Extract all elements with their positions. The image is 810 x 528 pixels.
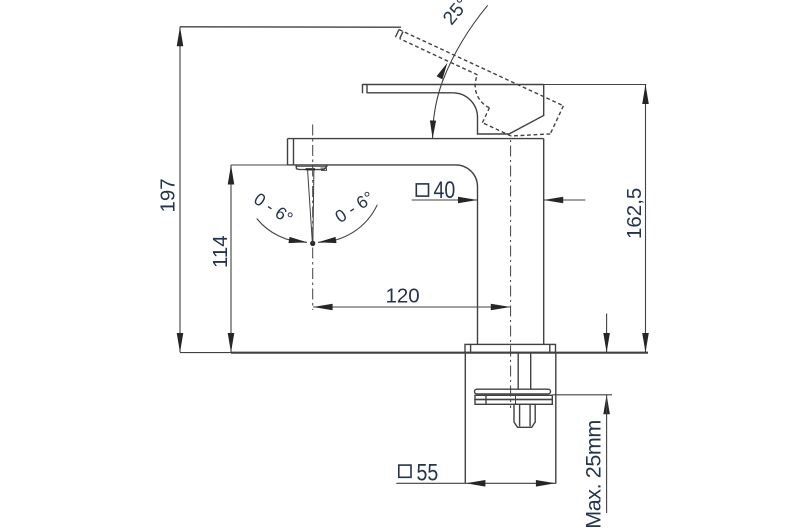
angle dimension 0-6 degree right arc (318, 205, 377, 243)
svg-text:Max. 25mm: Max. 25mm (581, 420, 605, 528)
dimension Max. 25mm (553, 314, 613, 514)
node stream apex dot (310, 241, 315, 246)
dimension 162,5 vertical line (544, 85, 649, 353)
svg-text:25°: 25° (439, 0, 474, 29)
centerline of spout outlet (dash-dot) (312, 125, 314, 311)
svg-text:162,5: 162,5 (623, 188, 646, 239)
angle dimension 0-6 degree left arc (257, 219, 307, 244)
wire: countertop line (231, 352, 648, 354)
dimension square-40 horizontal line (412, 197, 586, 204)
svg-text:55: 55 (417, 458, 439, 486)
washer W2 (475, 395, 552, 399)
faucet spout and body outline (288, 139, 544, 345)
label square 40 (416, 176, 455, 204)
washer W1 (top stadium washer) (475, 389, 551, 394)
washer W3 (bracket) (475, 395, 552, 404)
label square 55 (399, 458, 438, 486)
svg-text:0 - 6°: 0 - 6° (331, 187, 377, 227)
dimension 114 vertical line (228, 165, 288, 353)
water stream V lines (308, 170, 314, 243)
faucet lever solid outline (363, 84, 544, 134)
svg-text:120: 120 (386, 285, 420, 308)
faucet lever tilted dashed outline (395, 30, 563, 137)
aerator at spout tip (296, 165, 327, 171)
centerline of faucet body (dash-dot) (510, 140, 512, 408)
svg-text:0 - 6°: 0 - 6° (250, 189, 296, 229)
dimension square-55 horizontal line (396, 480, 556, 487)
dimension 120 horizontal line (313, 304, 510, 311)
threaded rod below deck (518, 353, 531, 389)
svg-text:197: 197 (157, 178, 180, 212)
mounting nut (514, 404, 535, 427)
angle dimension 25 degree arc (430, 5, 488, 138)
svg-text:114: 114 (209, 235, 232, 268)
svg-text:40: 40 (434, 176, 456, 204)
wire: countertop extension segment (180, 352, 231, 354)
below-deck shank box (465, 353, 556, 484)
dimension 197 vertical line (177, 27, 184, 353)
base flange on countertop (465, 344, 556, 352)
wire: top extension line (197 reference, y=26.8) (180, 26, 401, 28)
